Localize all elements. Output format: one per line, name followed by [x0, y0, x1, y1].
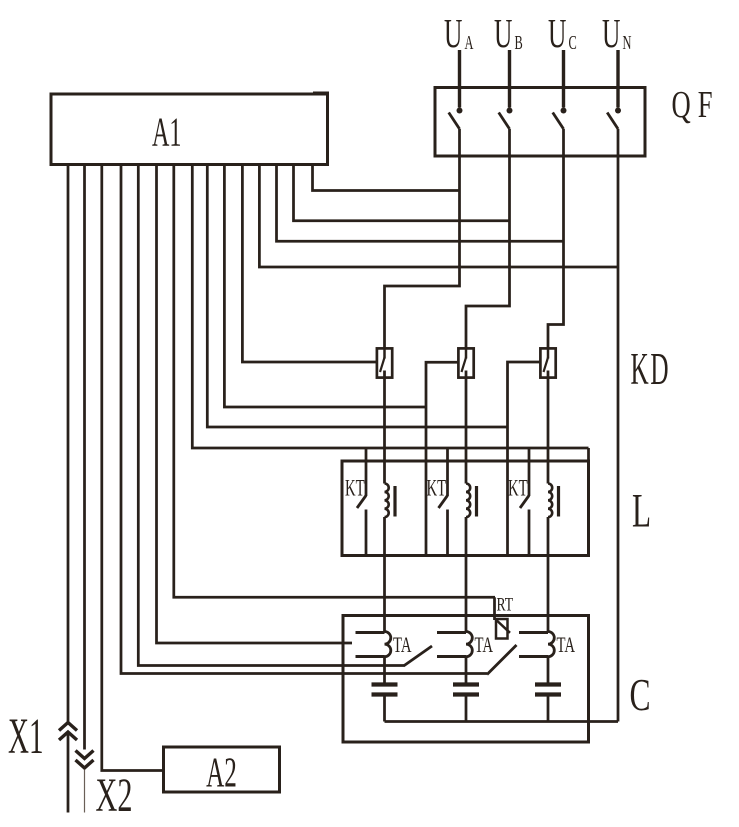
contactor KT3 upper wire: [528, 448, 531, 496]
wire A1 pin p3 to A2: [102, 165, 164, 771]
wire UA drop into QF: [458, 50, 461, 108]
current transformer TA2 bottom lead: [437, 655, 466, 658]
wire KD3 control vertical: [508, 362, 541, 427]
current transformer TA2 coil: [466, 632, 472, 657]
capacitor C1 top plate: [372, 682, 398, 686]
wire A1 pin p1 down to X1 connector: [67, 165, 70, 722]
contactor KT2 lower wire: [446, 510, 449, 556]
wire UB drop into QF: [508, 50, 511, 108]
svg-text:U: U: [548, 12, 566, 56]
wire A1 pin p12 to neutral bus: [259, 165, 618, 268]
svg-text:KT: KT: [508, 475, 528, 501]
svg-text:U: U: [602, 12, 620, 56]
contactor KT1 blade: [357, 496, 366, 509]
contactor KT1 lower wire: [365, 510, 368, 556]
breaker QF pole N: contact dot: [615, 108, 621, 114]
label L: [632, 484, 651, 537]
breaker QF pole A: contact dot: [457, 108, 463, 114]
contactor KT2 blade: [439, 496, 448, 509]
wire neutral bus: QF pole N down right side to capacitor bus: [617, 129, 620, 722]
svg-text:U: U: [444, 12, 462, 56]
net UN label: [602, 12, 620, 56]
wire L2 down to C box: [465, 517, 468, 632]
breaker QF pole A: blade: [449, 113, 460, 129]
capacitor C3 bottom plate: [535, 692, 561, 696]
wire capacitor C2 to bottom bus: [465, 695, 468, 722]
wire KD3 to reactor L3: [547, 371, 550, 484]
reactor L2 coil: [466, 484, 470, 518]
svg-text:U: U: [494, 12, 512, 56]
connector X2 chevrons (down): [76, 751, 94, 759]
label X2: [96, 768, 133, 822]
capacitor C2 bottom plate: [453, 692, 479, 696]
wire A1 pin p4 to TA switch blade 2: [121, 165, 487, 674]
thyristor switch KD1 inner mark: wire stub and kink: [383, 348, 386, 358]
svg-text:A2: A2: [206, 750, 237, 796]
wire phase C: QF pole C down, jog left to KD3: [548, 129, 564, 349]
label TA2: [475, 633, 494, 658]
wire KD1 to reactor L1: [383, 371, 386, 484]
wire A1 pin p13 to phase C tap: [277, 165, 564, 242]
net UA label: [444, 12, 462, 56]
svg-text:RT: RT: [497, 593, 514, 615]
wire A1 pin p2 down to X2 connector: [83, 165, 86, 750]
svg-text:QF: QF: [672, 85, 720, 127]
wire KD2 control vertical: [426, 362, 458, 407]
svg-text:KT: KT: [427, 475, 447, 501]
wire X2 continues down (thin): [84, 770, 86, 813]
label TA1: [393, 633, 412, 658]
scan artifact tick at A1 top right corner: [313, 92, 329, 96]
contactor KT2 upper wire: [446, 448, 449, 496]
svg-text:B: B: [515, 31, 523, 54]
svg-text:X1: X1: [8, 708, 44, 765]
net UC label: [548, 12, 566, 56]
current transformer TA1 bottom lead: [356, 655, 385, 658]
label QF: [672, 85, 720, 127]
svg-text:L: L: [632, 484, 651, 537]
breaker QF pole B: blade: [499, 113, 510, 129]
wire TA2 down to capacitor C2: [465, 657, 468, 683]
wire KD2 to reactor L2: [465, 371, 468, 484]
wire A1 pin p11 to KD1 control: [242, 165, 376, 363]
svg-text:N: N: [623, 31, 632, 54]
wire L1 down to C box: [383, 517, 386, 632]
reactor L2 core bar: [475, 486, 478, 517]
thyristor switch KD3 inner mark: wire stub and kink: [547, 348, 550, 358]
svg-text:KD: KD: [631, 345, 671, 394]
wire capacitor C3 to bottom bus: [547, 695, 550, 722]
svg-text:KT: KT: [345, 475, 365, 501]
contactor KT3 blade: [520, 496, 529, 509]
breaker QF pole C: blade: [553, 113, 564, 129]
wire X1 continues down: [67, 733, 70, 813]
controller A1 box: [51, 94, 328, 165]
wire UC drop into QF: [562, 50, 565, 108]
capacitor C2 top plate: [453, 682, 479, 686]
thyristor switch KD2 inner mark: wire stub and kink: [465, 348, 468, 358]
svg-text:TA: TA: [393, 633, 412, 658]
wire A1 pin p10 to KD2 control: [224, 165, 426, 408]
label A1: [152, 110, 181, 155]
wire TA3 down to capacitor C3: [547, 657, 550, 683]
wire A1 pin p14 to phase B tap: [294, 165, 510, 221]
reactor L3 coil: [548, 484, 552, 518]
switch blade 2 (TA feed): [487, 645, 517, 675]
svg-text:C: C: [569, 31, 577, 54]
current transformer TA1 top lead: [356, 631, 385, 634]
wire capacitor C1 to bottom bus: [383, 695, 386, 722]
wire A1 pin p9 to KD3 control: [207, 165, 507, 428]
fuse RT body: [496, 619, 508, 639]
wire A1 pin p8 to KT control bus: [192, 165, 588, 449]
breaker QF pole N: blade: [607, 113, 618, 129]
reactor L1 core bar: [393, 486, 396, 517]
current transformer TA3 top lead: [519, 631, 548, 634]
module A2 box: [164, 747, 280, 792]
current transformer TA3 coil: [548, 632, 554, 657]
wire A1 pin p7 to RT fuse: [174, 165, 495, 598]
fuse RT inner mark: [497, 621, 510, 633]
wire L3 down to C box: [547, 517, 550, 632]
wire capacitor bottom bus: [385, 720, 619, 723]
label TA3: [557, 633, 576, 658]
capacitor C1 bottom plate: [372, 692, 398, 696]
label KT3: [508, 475, 528, 501]
wire RT drop: [493, 597, 496, 620]
label RT: [497, 593, 514, 615]
breaker QF pole C: contact dot: [561, 108, 567, 114]
breaker QF box: [435, 88, 645, 157]
svg-text:A1: A1: [152, 110, 181, 155]
current transformer TA3 bottom lead: [519, 655, 548, 658]
reactor bank L box: [342, 461, 589, 556]
wire KT bus drop into L box right edge: [587, 448, 590, 461]
capacitor bank C box: [343, 616, 589, 743]
reactor L3 core bar: [557, 486, 560, 517]
svg-text:A: A: [465, 31, 474, 54]
svg-text:X2: X2: [96, 768, 133, 822]
label KT2: [427, 475, 447, 501]
wire UN drop into QF: [616, 50, 619, 108]
wire phase A: QF pole A down, jog left to KD1: [385, 129, 460, 349]
capacitor C3 top plate: [535, 682, 561, 686]
label KD: [631, 345, 671, 394]
wire A1 pin p5 to TA switch blade 1: [138, 165, 404, 666]
svg-text:TA: TA: [557, 633, 576, 658]
net UB label: [494, 12, 512, 56]
wire TA1 down to capacitor C1: [383, 657, 386, 683]
wire phase B: QF pole B down, jog left to KD2: [466, 129, 510, 349]
thyristor switch KD3 body: [540, 348, 555, 377]
label X1: [8, 708, 44, 765]
label KT1: [345, 475, 365, 501]
contactor KT1 upper wire: [365, 448, 368, 496]
switch blade 1 (TA feed): [404, 646, 433, 666]
current transformer TA2 top lead: [437, 631, 466, 634]
label A2: [206, 750, 237, 796]
current transformer TA1 coil: [385, 632, 391, 657]
wire A1 pin p6 to TA1 feed: [157, 165, 353, 644]
connector X1 chevrons (up): [59, 723, 77, 731]
thyristor switch KD2 body: [458, 348, 473, 377]
thyristor switch KD1 body: [377, 348, 392, 377]
reactor L1 coil: [385, 484, 389, 518]
contactor KT3 lower wire: [528, 510, 531, 556]
breaker QF pole B: contact dot: [507, 108, 513, 114]
label C: [630, 671, 651, 721]
svg-text:C: C: [630, 671, 651, 721]
wire A1 pin p15 to phase A tap: [313, 165, 460, 191]
svg-text:TA: TA: [475, 633, 494, 658]
